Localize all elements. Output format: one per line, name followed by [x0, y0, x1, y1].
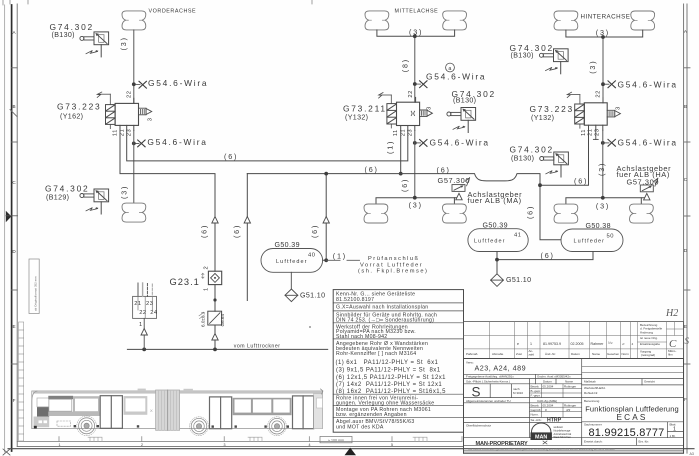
solenoid valve G73.223 Y132 rear [567, 92, 620, 130]
svg-text:1: 1 [530, 342, 532, 346]
svg-text:G23.1: G23.1 [170, 277, 200, 287]
svg-text:Zust: Zust [516, 352, 522, 356]
svg-text:Gewicht: Gewicht [644, 380, 655, 384]
svg-text:Datum: Datum [543, 380, 552, 384]
row letters left edge [12, 30, 16, 403]
svg-text:3: 3 [148, 118, 154, 122]
svg-text:E: E [684, 324, 687, 329]
svg-text:Rohr-Kennziffer [ ] nach M3164: Rohr-Kennziffer [ ] nach M3164 [336, 351, 416, 357]
skirt band front [48, 412, 100, 416]
air bellows middle axle top right [443, 11, 467, 30]
svg-text:F.-gepr.: F.-gepr. [531, 394, 541, 398]
solenoid valve G73.211 Y132 label [343, 104, 387, 122]
wire test port line (1) [326, 259, 359, 261]
wire front bellows to node [133, 30, 135, 104]
svg-text:und MOT des KDA: und MOT des KDA [336, 425, 384, 431]
svg-text:3: 3 [616, 106, 622, 110]
svg-text:Gesehen: Gesehen [607, 352, 620, 356]
svg-text:G50.39: G50.39 [483, 221, 508, 229]
svg-text:VORDERACHSE: VORDERACHSE [149, 9, 197, 15]
svg-text:4: 4 [632, 342, 634, 346]
svg-text:Werk München: Werk München [554, 435, 572, 439]
wire middle bottom bellows bus [376, 198, 459, 204]
svg-text:Alle Rechte vorbehalten gemäß: Alle Rechte vorbehalten gemäß DIN 34. We… [468, 447, 615, 451]
svg-text:(6): (6) [400, 178, 409, 192]
svg-text:(B130): (B130) [511, 51, 534, 59]
drain valve G51.10 rear [491, 274, 532, 287]
node G54.6-Wira front bottom [132, 137, 208, 147]
svg-text:MAN-PROPRIETARY: MAN-PROPRIETARY [476, 441, 529, 447]
load sensor G57.300 middle [438, 176, 471, 200]
flow arrow seg1 riser [212, 217, 218, 224]
svg-text:2: 2 [204, 266, 210, 270]
supply line from air dryer [127, 348, 327, 350]
svg-text:Sch.-Pflicht (.Sicherheits-Ken: Sch.-Pflicht (.Sicherheits-Kennz.) [466, 380, 510, 384]
door 1 front [100, 396, 122, 429]
svg-text:G73.211: G73.211 [343, 104, 387, 114]
wire rear bottom bellows bus [566, 198, 647, 204]
svg-text:⌀: ⌀ [622, 342, 625, 346]
load sensor G57.300 rear [627, 177, 660, 200]
svg-text:S: S [472, 385, 481, 400]
svg-text:2: 2 [141, 443, 143, 447]
svg-text:Oberflächenschutz: Oberflächenschutz [466, 423, 492, 427]
svg-text:Geprüft: Geprüft [531, 408, 541, 412]
svg-text:22: 22 [127, 91, 133, 98]
svg-text:Rubinger: Rubinger [564, 385, 576, 389]
air bellows rear axle bottom right [630, 204, 654, 223]
svg-text:05.2004: 05.2004 [543, 385, 554, 389]
vertical format note box [29, 259, 39, 314]
chassis dots [74, 425, 289, 428]
svg-text:(sh. Fkpl.Bremse): (sh. Fkpl.Bremse) [358, 268, 428, 274]
svg-text:(3): (3) [409, 201, 423, 210]
node G54.6-Wira middle top [413, 71, 486, 87]
svg-text:3: 3 [224, 443, 226, 447]
svg-text:22: 22 [139, 310, 146, 316]
svg-text:Änderung: Änderung [640, 331, 653, 335]
bus roof band [33, 391, 322, 394]
air bellows middle axle bottom right [443, 204, 467, 223]
centering triangle bottom [345, 448, 357, 456]
svg-text:G51.10: G51.10 [506, 276, 531, 284]
node G54.6-Wira rear top [601, 79, 678, 89]
roof unit [138, 389, 146, 392]
svg-text:5: 5 [391, 443, 393, 447]
svg-text:(B129): (B129) [46, 194, 69, 202]
svg-text:(Y162): (Y162) [60, 112, 83, 120]
svg-text:ECAS: ECAS [616, 413, 647, 422]
door 2 middle [210, 397, 232, 429]
svg-text:(1): (1) [386, 140, 395, 154]
svg-text:81.99753.9: 81.99753.9 [543, 342, 561, 346]
svg-text:40: 40 [308, 252, 315, 258]
svg-text:gungen. Verlegung ohne Wassers: gungen. Verlegung ohne Wassersäcke [336, 400, 434, 406]
svg-text:1: 1 [59, 443, 61, 447]
svg-text:(8): (8) [401, 58, 410, 72]
svg-text:film: film [668, 353, 673, 357]
svg-text:Maßstab: Maßstab [584, 380, 596, 384]
svg-text:(3): (3) [597, 162, 606, 176]
svg-text:A3: A3 [690, 452, 694, 456]
svg-text:(6): (6) [224, 152, 238, 161]
vent arrow under test block [141, 329, 147, 336]
svg-text:(3): (3) [119, 185, 128, 199]
svg-text:Luftfeder: Luftfeder [574, 239, 606, 245]
pressure switch G74.302 B129 [45, 183, 109, 214]
svg-text:23: 23 [126, 129, 132, 136]
svg-text:H2: H2 [665, 308, 678, 319]
air bellows middle axle bottom left [364, 204, 388, 223]
svg-text:G74.302: G74.302 [45, 183, 89, 193]
bus tail [314, 393, 323, 428]
svg-text:Rubinger: Rubinger [564, 404, 576, 408]
svg-text:G54.6-Wira: G54.6-Wira [430, 137, 490, 147]
pressure limiter G6.64 [199, 311, 225, 327]
svg-text:(6): (6) [541, 251, 555, 260]
node G54.6-Wira front top [132, 78, 208, 88]
svg-text:1: 1 [204, 287, 210, 291]
svg-text:81.52100.8197: 81.52100.8197 [336, 297, 374, 303]
svg-text:Norm: Norm [622, 352, 630, 356]
svg-text:1 Bl.: 1 Bl. [670, 434, 676, 438]
svg-text:Luftfeder: Luftfeder [474, 239, 506, 245]
svg-text:Norm.: Norm. [531, 413, 539, 417]
pressure switch G74.302 B130 middle [447, 89, 496, 133]
svg-text:vom Lufttrockner: vom Lufttrockner [234, 344, 281, 350]
corner mark bottom left [3, 449, 10, 455]
svg-text:Ersetzt durch:: Ersetzt durch: [584, 440, 603, 444]
reservoir G50.39 stadium middle [468, 229, 528, 252]
border frame left scan bar [5, 5, 12, 452]
wire branch to reservoir G50.39 [323, 174, 327, 261]
air bellows middle axle top left [365, 11, 389, 30]
dashed storage box [57, 421, 71, 426]
svg-text:81.99215.8777: 81.99215.8777 [588, 427, 664, 439]
wire seg2 main distribution with hose dip [247, 174, 561, 240]
svg-text:DIN 74 253. (→□═ Sonderausführ: DIN 74 253. (→□═ Sonderausführung) [336, 317, 434, 323]
svg-text:G73.223: G73.223 [57, 102, 101, 112]
svg-text:Freigegebene Ausführg. «MAN291: Freigegebene Ausführg. «MAN291» [466, 375, 514, 379]
svg-text:F: F [684, 397, 687, 402]
svg-text:G54.6-Wira: G54.6-Wira [148, 78, 208, 88]
svg-text:(6): (6) [525, 205, 534, 219]
valve port labels front [112, 91, 153, 137]
wire middle top bellows pair [377, 30, 455, 36]
plugged port 21 rear [593, 130, 598, 139]
reservoir G50.39 stadium front [261, 249, 323, 273]
scale 100mm box [320, 436, 352, 442]
svg-text:G54.6-Wira: G54.6-Wira [618, 79, 678, 89]
test connection block ports 21-24 [133, 283, 157, 349]
svg-text:(3): (3) [588, 60, 597, 74]
svg-text:Nutzfahrzeuge: Nutzfahrzeuge [554, 428, 571, 432]
svg-text:Datum: Datum [571, 352, 580, 356]
svg-text:(8) 16x2 PA11/12-PHLY = St16x: (8) 16x2 PA11/12-PHLY = St16x1,5 [336, 389, 446, 395]
svg-text:Benennung: Benennung [584, 399, 600, 403]
wire front port11 to seg1 supply [120, 130, 215, 271]
svg-text:ab Originalformat 352 mm: ab Originalformat 352 mm [34, 276, 38, 311]
svg-text:≈ 100 mm: ≈ 100 mm [328, 439, 344, 443]
svg-text:6.0±0.3: 6.0±0.3 [201, 311, 206, 327]
svg-text:HTRP: HTRP [547, 417, 562, 423]
svg-text:50: 50 [607, 234, 614, 240]
svg-text:B: B [684, 104, 687, 109]
svg-text:4: 4 [309, 443, 311, 447]
svg-text:Sachnummer: Sachnummer [584, 423, 602, 427]
air bellows front axle top [122, 11, 146, 30]
pressure switch G74.302 B130 front [50, 22, 109, 57]
vent arrow under G6.64 [212, 334, 218, 341]
bottom measuring ruler [17, 437, 462, 442]
svg-text:(B130): (B130) [511, 154, 534, 162]
wire reservoir to drain G51.10 front [290, 272, 292, 289]
rear section roof mark [184, 389, 193, 392]
flow arrow reservoir branch [323, 217, 329, 224]
node reservoir right port [324, 258, 328, 262]
window after door1 [124, 396, 148, 415]
wire front port23 to bottom bellows [133, 130, 135, 203]
svg-text:23: 23 [594, 129, 600, 136]
front bumper [34, 417, 50, 428]
svg-text:CAD-Zg.(AME): CAD-Zg.(AME) [537, 399, 557, 403]
node G54.6-Wira middle bottom [413, 137, 490, 147]
air bellows rear axle top left [554, 11, 578, 30]
pressure switch G74.302 B130 rear lower [510, 145, 569, 177]
wire G6.64 to supply line [214, 325, 216, 349]
valve port labels middle [393, 90, 433, 136]
svg-text:3: 3 [427, 106, 433, 110]
svg-text:A23, A24, 489: A23, A24, 489 [475, 364, 527, 373]
drain valve G51.10 front [285, 289, 325, 302]
svg-text:Ers. für:: Ers. für: [639, 440, 650, 444]
svg-text:(3): (3) [119, 36, 128, 50]
svg-text:(6): (6) [200, 224, 209, 238]
svg-text:G6.64: G6.64 [220, 314, 225, 327]
wheel front [77, 416, 97, 436]
title block small labels [466, 361, 676, 444]
svg-text:MITTELACHSE: MITTELACHSE [395, 9, 439, 15]
svg-text:11: 11 [581, 129, 587, 136]
svg-text:ist neue Orig.: ist neue Orig. [640, 336, 658, 340]
articulation bellows [156, 390, 180, 430]
solenoid valve G73.223 Y132 label rear [530, 104, 574, 122]
windows rear section [233, 398, 292, 415]
svg-text:Stahl nach M08-942: Stahl nach M08-942 [336, 334, 387, 340]
svg-text:Antriebstechnik: Antriebstechnik [554, 432, 572, 436]
bus body outline [32, 391, 323, 429]
reservoir G50.38 stadium rear [561, 229, 623, 252]
top edge ticks [3, 0, 312, 5]
svg-text:Bearb.: Bearb. [531, 384, 540, 388]
valve port labels rear [581, 90, 622, 136]
air bellows rear axle top right [631, 11, 655, 30]
solenoid valve G73.211 Y132 middle [379, 93, 433, 131]
wire G23.1 to G6.64 [214, 285, 216, 312]
svg-text:fuer ALB (MA): fuer ALB (MA) [468, 196, 522, 205]
label Pruefanschluss [358, 256, 428, 274]
wire reservoirs bottom link [497, 252, 593, 274]
svg-text:Gschn. Ausf.«M3055/42»: Gschn. Ausf.«M3055/42» [537, 375, 571, 379]
svg-text:Rahmer: Rahmer [591, 342, 605, 346]
svg-text:B.-gepr.: B.-gepr. [531, 389, 542, 393]
svg-text:S: S [685, 336, 690, 346]
svg-text:Änd.-Nr.: Änd.-Nr. [545, 352, 556, 356]
svg-text:21: 21 [400, 129, 406, 136]
svg-text:(6): (6) [232, 224, 241, 238]
svg-text:05.2004: 05.2004 [543, 404, 554, 408]
row letters right edge [684, 29, 688, 402]
svg-text:MAN: MAN [535, 435, 547, 441]
svg-text:Werkstoff/Halbz.: Werkstoff/Halbz. [584, 386, 606, 390]
svg-text:21: 21 [134, 301, 141, 307]
svg-text:D: D [12, 249, 16, 254]
svg-text:1: 1 [673, 427, 677, 433]
svg-text:Paßmaß: Paßmaß [466, 352, 478, 356]
check valve G23.1 [170, 266, 222, 291]
wire middle port11 to seg2 [400, 131, 402, 174]
stray mark [309, 326, 311, 328]
wire seg2 left drop dead end [246, 174, 248, 301]
svg-text:G51.10: G51.10 [300, 291, 325, 299]
svg-text:(1): (1) [333, 252, 347, 261]
svg-text:Rohteil-Nr.: Rohteil-Nr. [584, 391, 598, 395]
svg-text:41: 41 [514, 233, 521, 239]
svg-text:zahl: zahl [529, 353, 535, 357]
wheel rear [268, 417, 287, 436]
svg-text:Abmaße: Abmaße [492, 352, 504, 356]
svg-text:G.X=Auswahl nach Installations: G.X=Auswahl nach Installationsplan [336, 305, 428, 311]
svg-text:C: C [12, 180, 16, 185]
svg-text:24: 24 [150, 310, 158, 316]
solenoid valve G73.223 Y162 label [57, 102, 101, 121]
ruler numbers [59, 443, 394, 447]
svg-text:11: 11 [112, 129, 118, 136]
wire rear feed branch [540, 130, 589, 185]
solenoid valve G73.223 Y162 front [97, 92, 152, 130]
svg-text:Verw.:: Verw.: [466, 361, 474, 365]
svg-text:23: 23 [146, 301, 153, 307]
svg-text:(6): (6) [437, 165, 451, 174]
svg-text:G54.6-Wira: G54.6-Wira [147, 137, 207, 147]
svg-text:A: A [12, 30, 16, 35]
svg-text:G57.300: G57.300 [438, 176, 471, 185]
svg-text:(6) 12x1,5 PA11/12-PHLY = St 1: (6) 12x1,5 PA11/12-PHLY = St 12x1 [336, 375, 446, 381]
wire rear top bellows pair [566, 30, 643, 37]
svg-text:(B130): (B130) [453, 97, 476, 105]
svg-text:(Y132): (Y132) [531, 114, 554, 122]
svg-text:E: E [12, 324, 15, 329]
wire rear riser to valve [602, 37, 604, 103]
pressure switch G74.302 B130 rear upper [510, 43, 569, 74]
flow arrow seg2 left drop [244, 217, 250, 224]
svg-text:(B130): (B130) [52, 31, 75, 39]
svg-text:bzw. ergänzenden Angaben: bzw. ergänzenden Angaben [336, 412, 407, 418]
svg-text:(7) 14x2 PA11/12-PHLY = St 12: (7) 14x2 PA11/12-PHLY = St 12x1 [336, 382, 442, 388]
svg-text:C: C [669, 338, 677, 350]
svg-text:X: X [150, 408, 153, 413]
svg-text:22: 22 [596, 90, 602, 97]
svg-text:23: 23 [407, 129, 413, 136]
label Achslastgeber MA [468, 190, 523, 205]
svg-text:(3): (3) [596, 201, 610, 210]
svg-text:(retrograd): (retrograd) [641, 353, 655, 357]
svg-text:Bearb.: Bearb. [531, 403, 540, 407]
svg-text:22: 22 [408, 90, 414, 97]
svg-text:(1) 6x1 PA11/12-PHLY = St 6: (1) 6x1 PA11/12-PHLY = St 6x1 [336, 360, 439, 366]
svg-text:HINTERACHSE: HINTERACHSE [581, 14, 631, 21]
node G54.6-Wira rear bottom [601, 138, 678, 148]
svg-text:(6): (6) [574, 177, 588, 186]
svg-text:Ersatzausgabe: Ersatzausgabe [640, 342, 660, 346]
svg-text:Nv.: Nv. [608, 341, 613, 345]
label Achslastgeber HA [617, 164, 672, 179]
svg-text:02.2005: 02.2005 [571, 342, 584, 346]
svg-text:Name: Name [565, 380, 573, 384]
svg-text:(6): (6) [310, 224, 319, 238]
svg-text:G74.302: G74.302 [510, 145, 554, 155]
svg-text:(Y132): (Y132) [345, 114, 368, 122]
windshield window [37, 398, 49, 407]
svg-text:11: 11 [393, 129, 399, 136]
windshield dark lower [37, 407, 49, 416]
svg-text:fuer ALB (HA): fuer ALB (HA) [617, 170, 670, 179]
air bellows front axle bottom [122, 203, 146, 222]
svg-text:G73.223: G73.223 [530, 104, 574, 114]
svg-text:Name: Name [592, 352, 600, 356]
svg-text:(3) 9x1,5 PA11/12-PHLY = St 8: (3) 9x1,5 PA11/12-PHLY = St 8x1 [336, 367, 441, 373]
svg-text:weltweit: weltweit [554, 425, 564, 429]
reference mark a [446, 63, 455, 72]
fold ruler strip bottom left [19, 322, 24, 441]
svg-text:G54.6-Wira: G54.6-Wira [618, 138, 678, 148]
svg-text:B: B [12, 104, 15, 109]
air bellows rear axle bottom left [554, 204, 578, 223]
svg-text:G50.39: G50.39 [275, 241, 300, 249]
svg-text:M 3010: M 3010 [513, 391, 523, 395]
svg-text:Luftfeder: Luftfeder [276, 259, 308, 265]
bus front nose [32, 391, 37, 429]
centering triangle left edge [6, 211, 12, 223]
door 3 rear [293, 396, 314, 429]
svg-text:Prüfanschluß: Prüfanschluß [368, 256, 420, 262]
wire middle riser to valve [414, 36, 416, 102]
svg-text:4/9: 4/9 [566, 408, 571, 412]
svg-text:F: F [13, 398, 16, 403]
svg-text:e: e [517, 342, 519, 346]
window band front section [48, 396, 73, 399]
svg-text:1: 1 [139, 322, 143, 328]
wire middle port23 to bottom bellows bus [414, 131, 416, 198]
svg-text:(6): (6) [365, 165, 379, 174]
svg-text:G54.6-Wira: G54.6-Wira [426, 71, 486, 81]
wheel middle [190, 417, 209, 436]
wire front port21 to bus1 [127, 130, 408, 161]
MAN logo [531, 423, 572, 444]
svg-text:Sa.-Arb.:: Sa.-Arb.: [531, 418, 543, 422]
wire rear port23 to bottom bellows bus [602, 130, 604, 198]
